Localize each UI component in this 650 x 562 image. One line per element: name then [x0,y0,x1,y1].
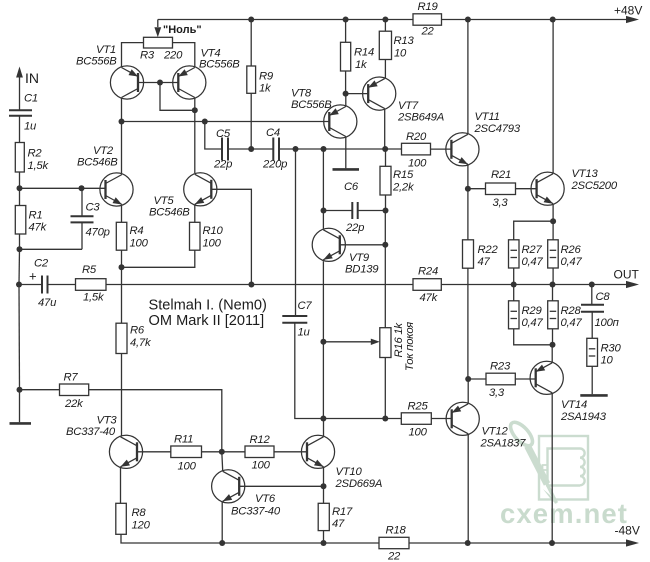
svg-text:100: 100 [130,237,149,249]
node R11/R12 junction [219,449,225,455]
wire R16 wiper [323,339,379,345]
svg-text:VT12: VT12 [482,426,509,438]
svg-text:R25: R25 [408,401,429,413]
capacitor C4 [262,127,287,170]
wire VT4 collector down [194,98,196,110]
wire R17 to rail [323,531,325,543]
svg-text:R8: R8 [132,507,147,519]
svg-text:VT2: VT2 [93,145,114,157]
svg-text:3,3: 3,3 [489,387,505,399]
wire R23 to VT14 base [515,378,535,380]
wire R2 to base node [19,172,21,188]
svg-text:2SD669A: 2SD669A [335,478,383,490]
svg-text:R9: R9 [259,70,274,82]
node VT4 collector junction [192,107,198,113]
node C7 tap [293,146,299,152]
wire VT9 base [340,244,386,246]
svg-text:R7: R7 [64,372,79,384]
svg-text:Ток покоя: Ток покоя [404,322,416,371]
wire VT10 collector up [323,419,325,437]
resistor R23 [486,361,515,399]
resistor R14 [341,42,374,71]
node R16 wiper tap [320,339,326,345]
wire IN to C1 [19,77,21,110]
wire VT4 emitter to R3 [173,43,195,67]
wire +48V rail left segment [158,19,413,21]
resistor R11 [171,434,202,473]
node R16 bottom junction [382,416,388,422]
wire node to R23 [468,378,486,380]
svg-text:R20: R20 [406,131,427,143]
node R16 rotated labels [393,322,416,371]
wire VT14 emitter up [551,345,553,363]
wire C5 tap down [205,122,222,150]
svg-text:cxem.net: cxem.net [500,498,628,529]
resistor R5 [76,264,107,303]
node VT9 base junction [382,242,388,248]
wire R16 bottom [384,358,386,419]
wire R6 to VT3 collector [121,354,123,436]
svg-text:R18: R18 [386,525,407,537]
svg-text:100: 100 [203,237,222,249]
wire base node down to R1 [19,188,21,205]
node IN terminal [16,67,39,87]
svg-text:10: 10 [394,48,407,60]
svg-text:22k: 22k [64,398,84,410]
wire R3 wiper from rail [154,20,161,38]
node +48V rail junctions [248,17,556,23]
svg-text:R11: R11 [174,434,193,446]
resistor R21 [486,169,516,209]
svg-text:VT6: VT6 [255,493,276,505]
wire VT5 base to feedback [211,189,251,284]
resistor R18 [379,525,409,562]
wire R11 to node [202,451,222,453]
resistor R17 [318,503,353,530]
node C5 tap [202,119,208,125]
svg-text:BC337-40: BC337-40 [231,506,281,518]
wire R12 to VT10 base [274,451,307,453]
svg-text:VT7: VT7 [398,100,419,112]
svg-text:100: 100 [408,157,427,169]
node VAS output [382,146,388,152]
resistor R10 [190,222,224,250]
svg-text:VT3: VT3 [97,415,118,427]
wire R22 down to VT12 [467,268,469,379]
wire tail line to R10 [122,250,195,267]
transistor VT8 [291,87,357,138]
wire R28 bottom [552,329,554,345]
ground VT8 collector [333,168,360,171]
wire R25 to VT12 base [431,418,451,420]
svg-text:BD139: BD139 [345,263,379,275]
node VT14 emitter node [550,342,556,348]
svg-text:120: 120 [132,520,151,532]
wire VT11 emitter down [467,165,469,189]
svg-text:47k: 47k [420,292,439,304]
svg-text:R14: R14 [354,46,374,58]
resistor R4 [116,222,148,250]
svg-text:2SC4793: 2SC4793 [474,123,521,135]
svg-text:VT9: VT9 [349,252,370,264]
wire C2 to R5 [48,284,76,286]
wire C6 left [324,210,353,212]
svg-text:R10: R10 [203,225,224,237]
wire -48V rail left [222,542,379,544]
transistor VT2 [77,145,133,206]
wire C8 to R30 [591,312,593,339]
capacitor C3 [20,188,110,249]
wire R5 to R24 (feedback line) [106,284,413,286]
resistor R19 [413,1,442,37]
transistor VT1 [76,44,144,99]
wire VT5 emitter to R10 [194,205,196,222]
wire VT3 emitter to R8 [120,467,122,503]
svg-text:R28: R28 [561,305,582,317]
transistor VT5 [149,173,217,219]
svg-text:C3: C3 [86,201,101,213]
resistor R2 [15,143,49,173]
wire bases to VT4 collector [160,83,195,111]
wire VT14 collector to rail [551,393,553,543]
svg-text:R4: R4 [130,225,144,237]
svg-text:C4: C4 [266,127,280,139]
capacitor C8 [581,285,619,329]
wire R7 left [20,389,60,391]
wire R8 to rail [121,534,222,543]
svg-text:+: + [29,269,37,284]
resistor R24 [413,266,441,305]
transistor VT6 [212,470,281,518]
svg-text:R30: R30 [601,343,622,355]
svg-text:R23: R23 [490,361,511,373]
transistor VT12 [446,402,526,449]
wire rail to R13 [384,20,386,32]
svg-text:R2: R2 [28,147,43,159]
wire VT6 base line [239,485,323,487]
svg-text:1,5k: 1,5k [28,160,50,172]
wire VT1 base to VT4 base [138,82,178,84]
svg-text:0,47: 0,47 [561,317,583,329]
node VT7 base node [343,91,349,97]
svg-text:220p: 220p [262,158,287,170]
wire VT2 emitter to R4 [121,206,123,223]
wire left rail to ground [19,390,21,423]
transistor VT9 [312,228,379,275]
wire VT7 collector down [384,109,386,149]
node C3 tap [79,185,85,191]
wire VT1 collector down [121,98,123,121]
resistor R13 [379,31,414,59]
node VT12 emitter node [465,376,471,382]
wire R27 to OUT [513,268,515,285]
wire diff output line [122,121,330,123]
wire R4 to tail node [121,250,123,267]
node R9 bottom [248,146,254,152]
svg-text:100: 100 [252,459,271,471]
svg-text:22p: 22p [345,222,364,234]
wire VT9 emitter down [322,261,324,418]
resistor R26 [548,240,583,268]
svg-text:R29: R29 [522,305,543,317]
node R1/C3 junction [17,246,23,252]
svg-text:47k: 47k [29,222,48,234]
resistor R20 [402,131,431,169]
resistor R12 [245,434,274,472]
svg-text:1u: 1u [298,327,311,339]
wire rail to R9 [250,20,252,67]
svg-text:R13: R13 [394,35,415,47]
wire emitter node to R27 [514,221,553,240]
transistor VT11 [446,111,521,166]
wire emitter node to R21 [468,188,486,190]
wire R26 to OUT [552,268,554,285]
svg-text:100: 100 [409,426,428,438]
wire R15 node down to R16 [384,211,386,328]
wire node to R12 [222,451,245,453]
svg-text:R17: R17 [332,506,353,518]
wire C7 top [295,149,297,316]
wire VT13 collector to rail [552,20,554,174]
svg-text:100: 100 [178,460,197,472]
wire rail to R14 [345,20,347,43]
svg-text:0,47: 0,47 [522,317,544,329]
svg-text:1u: 1u [24,121,37,133]
svg-text:R19: R19 [418,1,439,13]
svg-text:R3: R3 [140,50,155,62]
wire VT10 emitter down [323,467,325,486]
capacitor C2 [29,258,57,310]
svg-text:4,7k: 4,7k [130,337,152,349]
wire VT1 emitter to R3 [122,43,144,67]
svg-text:2SC5200: 2SC5200 [571,180,618,192]
node C6 left [321,208,327,214]
wire OUT to R28 [552,285,554,301]
resistor R30 [587,338,622,366]
svg-text:22p: 22p [213,158,232,170]
svg-text:VT8: VT8 [291,87,312,99]
ground zobel [580,394,607,397]
svg-text:47u: 47u [38,297,57,309]
svg-text:C6: C6 [344,181,359,193]
svg-text:VT10: VT10 [336,466,363,478]
capacitor C1 [9,93,38,133]
transistor VT7 [363,77,444,124]
svg-text:0,47: 0,47 [522,256,544,268]
svg-text:R21: R21 [491,169,511,181]
node OUT junctions [511,282,595,288]
svg-text:10: 10 [601,355,614,367]
wire VT11 collector to rail [467,20,469,135]
wire C6 right [358,210,386,212]
svg-text:IN: IN [25,70,39,86]
svg-text:1k: 1k [355,59,368,71]
wire VT7 base [346,93,369,95]
svg-text:1k: 1k [259,83,272,95]
svg-text:2SA1943: 2SA1943 [560,411,607,423]
node VT13 emitter node [550,218,556,224]
wire C7 bottom [295,323,324,419]
svg-text:VT4: VT4 [201,47,221,59]
wire VT12 emitter up [467,379,469,404]
svg-text:47: 47 [332,518,345,530]
svg-text:Stelmah I. (Nem0): Stelmah I. (Nem0) [149,298,267,314]
svg-text:C8: C8 [596,291,611,303]
resistor R27 [509,240,544,268]
svg-text:0,47: 0,47 [561,256,583,268]
svg-text:BC337-40: BC337-40 [66,426,116,438]
svg-text:2SB649A: 2SB649A [397,112,444,124]
wire R14 to base node [345,71,347,94]
svg-text:R5: R5 [82,264,97,276]
wire OUT to R29 [513,285,515,301]
resistor R22 [463,240,499,268]
node VT10 emitter node [321,483,327,489]
resistor R25 [401,401,431,439]
svg-text:C7: C7 [298,300,313,312]
resistor R6 [116,323,152,353]
wire C2 node to C2 [19,284,42,286]
svg-text:C5: C5 [216,128,231,140]
resistor R8 [116,503,151,534]
svg-text:"Ноль": "Ноль" [163,24,202,36]
transistor VT10 [301,435,382,490]
wire bias line [323,418,401,420]
capacitor C5 [213,128,232,170]
node input base node [17,185,23,191]
resistor R28 [548,301,583,329]
wire VT4-VT5 collector link [194,110,196,173]
wire VT8 emitter up [345,94,347,107]
wire R15 to C6 node [385,195,387,211]
wire R29 bottom to VT14 [514,329,553,345]
svg-text:R6: R6 [130,324,145,336]
resistor R3 (null pot) [140,37,183,61]
svg-text:47: 47 [478,256,491,268]
svg-text:R15: R15 [393,169,414,181]
node bias line left [320,416,326,422]
svg-text:470p: 470p [86,227,110,239]
wire left rail to C2 node [18,249,21,284]
resistor R7 [60,372,89,411]
wire VT6 emitter to rail [221,502,223,543]
wire VT8 collector to ground [345,136,347,168]
wire +48V rail right segment with arrow [442,16,640,23]
wire R30 to ground [591,366,593,394]
transistor VT14 [530,361,607,423]
wire emitter node to R26 [552,221,554,240]
node tail junction [119,264,125,270]
svg-text:+48V: +48V [614,4,642,18]
resistor R16 (bias pot) [380,328,391,358]
node C6 right [383,208,389,214]
svg-text:C1: C1 [24,93,38,105]
resistor R29 [509,301,544,329]
svg-text:R1: R1 [29,209,43,221]
svg-text:BC556B: BC556B [199,59,240,71]
capacitor C7 [282,300,312,339]
wire VAS node to R15 [385,149,387,166]
wire left rail down [18,285,21,390]
svg-text:VT1: VT1 [96,44,116,56]
svg-text:BC556B: BC556B [291,99,332,111]
wire VT2 collector up [121,122,123,174]
transistor VT3 [66,415,143,469]
node -48V label [615,524,640,538]
node "Ноль" label [163,24,202,36]
watermark cxem.net logo [500,419,628,529]
svg-text:VT5: VT5 [154,195,175,207]
svg-text:2SA1837: 2SA1837 [480,438,527,450]
node +48V label [614,4,642,18]
node mirror bases [157,80,163,86]
wire R24 to OUT [441,281,639,288]
wire VT9 collector up [322,149,324,229]
wire C5 to C4 [228,148,273,150]
wire -48V rail right [409,539,639,546]
node VT9 collector tap [321,146,327,152]
svg-text:R16 1k: R16 1k [393,322,405,358]
svg-text:R12: R12 [250,434,271,446]
node OUT label [614,267,640,281]
wire R13 to VT7 emitter [384,60,386,79]
svg-text:BC546B: BC546B [149,206,190,218]
svg-text:1,5k: 1,5k [83,292,105,304]
svg-text:OM Mark II [2011]: OM Mark II [2011] [149,313,265,329]
node C2 junction [16,282,22,288]
svg-text:BC546B: BC546B [77,156,118,168]
svg-text:VT11: VT11 [475,111,500,123]
svg-text:R26: R26 [561,244,582,256]
wire R1 to lower node [19,234,21,249]
node VT5 base tap [248,282,254,288]
wire base line to VT2 [20,187,106,189]
transistor VT13 [531,168,618,205]
wire C4 to R20 [279,148,402,150]
wire R7 to R11/R12 node [89,390,222,452]
svg-text:-48V: -48V [615,524,640,538]
svg-text:BC556B: BC556B [76,55,117,67]
svg-text:3,3: 3,3 [493,197,509,209]
transistor VT4 [173,47,241,99]
wire tail node down to R6 [121,267,123,323]
svg-text:R22: R22 [478,244,499,256]
svg-text:VT14: VT14 [561,399,587,411]
node VT11 emitter node [465,186,471,192]
node R7 junction [17,387,23,393]
svg-text:OUT: OUT [614,267,640,281]
node VT1/VT2 collectors [119,119,125,125]
wire R20 to VT11 base [431,148,452,150]
svg-text:22: 22 [387,550,401,562]
wire VT3 base to R11 [137,451,171,453]
svg-text:2,2k: 2,2k [392,181,415,193]
wire VT6 collector up [221,452,224,471]
resistor R15 [380,166,415,195]
ground input [10,422,32,425]
wire VT13 emitter down [552,204,554,221]
wire C1 to R2 [19,116,21,143]
svg-text:220: 220 [163,50,183,62]
resistor R1 [15,206,47,235]
wire VT12 collector to rail [467,434,469,543]
svg-text:R27: R27 [522,244,543,256]
svg-text:VT13: VT13 [572,168,599,180]
node bottom rail junctions [219,540,555,546]
capacitor C6 [344,181,364,234]
resistor R9 [247,66,274,95]
wire R21 to VT13 base [516,188,537,190]
